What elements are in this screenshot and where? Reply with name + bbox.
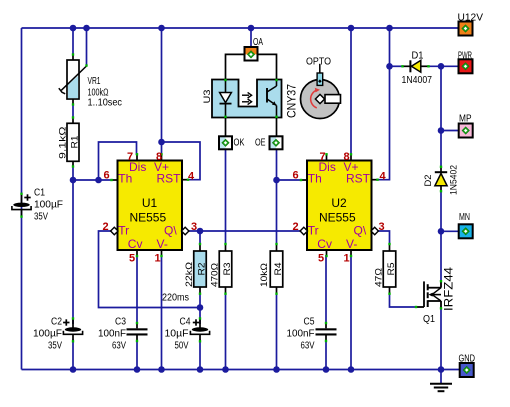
diode D1 bbox=[401, 60, 429, 72]
label C4 + bbox=[193, 319, 199, 325]
svg-text:V-: V- bbox=[346, 237, 357, 251]
svg-text:3: 3 bbox=[191, 221, 197, 233]
svg-text:10kΩ: 10kΩ bbox=[259, 263, 270, 287]
wire opto emitter to OE bbox=[276, 118, 278, 137]
wire PWR node down to D2 bbox=[440, 66, 442, 167]
wire U1 Tr to R2/C4 node bbox=[99, 231, 201, 308]
transistor Q1 IRFZ44 bbox=[415, 280, 442, 310]
wire VR1 wiper feed bbox=[86, 28, 88, 66]
junction (200,369.5) bbox=[197, 366, 204, 373]
svg-text:Tr: Tr bbox=[308, 224, 319, 238]
wire D1 to PWR bbox=[429, 65, 459, 67]
svg-text:NE555: NE555 bbox=[319, 211, 356, 225]
svg-text:Q1: Q1 bbox=[423, 314, 435, 325]
junction (441,130.5) bbox=[438, 127, 445, 134]
svg-text:100µF: 100µF bbox=[33, 329, 62, 340]
junction (73,180) bbox=[70, 177, 77, 184]
connector OA bbox=[245, 47, 258, 61]
wire U2 RST to rail bbox=[377, 28, 390, 180]
junction (73,28) bbox=[70, 25, 77, 32]
timer U1 NE555 bbox=[102, 151, 197, 265]
svg-text:OE: OE bbox=[255, 137, 266, 148]
svg-text:22kΩ: 22kΩ bbox=[184, 262, 195, 287]
svg-text:R4: R4 bbox=[273, 263, 284, 276]
label VR1 bbox=[88, 76, 123, 109]
wire node to U2 Th bbox=[277, 179, 303, 181]
svg-text:Tr: Tr bbox=[118, 224, 129, 238]
svg-text:U2: U2 bbox=[331, 196, 347, 210]
wire U2 V+ from rail bbox=[350, 28, 352, 155]
svg-text:10µF: 10µF bbox=[165, 329, 189, 340]
svg-text:63V: 63V bbox=[301, 341, 315, 352]
junction (389.5,66.3) bbox=[386, 63, 393, 70]
svg-text:Th: Th bbox=[118, 171, 132, 185]
svg-text:1N5402: 1N5402 bbox=[449, 165, 460, 195]
resistor R1 bbox=[67, 116, 79, 167]
junction (441,66.3) bbox=[438, 63, 445, 70]
svg-text:35V: 35V bbox=[48, 341, 62, 352]
svg-text:5: 5 bbox=[129, 253, 135, 265]
wire left supply rail bbox=[21, 28, 23, 370]
junction (351,369.5) bbox=[348, 366, 355, 373]
resistor R3 bbox=[219, 243, 232, 295]
wire node A down to C2 bbox=[72, 180, 74, 324]
connector U12V bbox=[459, 22, 473, 36]
svg-text:35V: 35V bbox=[34, 212, 48, 223]
potentiometer VR1 bbox=[59, 53, 88, 105]
svg-text:R5: R5 bbox=[386, 263, 397, 276]
label C2 + bbox=[63, 319, 69, 325]
wire R2 bottom to node bbox=[199, 293, 201, 308]
wire +12V top rail bbox=[22, 27, 459, 29]
junction (351,28) bbox=[348, 25, 355, 32]
svg-text:Th: Th bbox=[308, 171, 322, 185]
svg-text:MP: MP bbox=[459, 114, 472, 125]
wire OA connector drop bbox=[250, 28, 252, 48]
wire ground symbol stub bbox=[440, 370, 442, 384]
svg-text:C2: C2 bbox=[51, 317, 62, 328]
wire OE to R4 / U2 Th node bbox=[276, 149, 278, 245]
capacitor C1 bbox=[12, 193, 31, 218]
junction (200,231) bbox=[197, 228, 204, 235]
connector OK bbox=[219, 136, 232, 149]
svg-text:D1: D1 bbox=[412, 51, 424, 62]
svg-text:7: 7 bbox=[127, 151, 133, 163]
svg-text:V-: V- bbox=[157, 237, 168, 251]
connector PWR bbox=[459, 59, 473, 73]
junction (137,369.5) bbox=[134, 366, 141, 373]
wire VR1 top feed bbox=[72, 28, 74, 55]
connector OE bbox=[270, 136, 283, 149]
junction (441,369.5) bbox=[438, 366, 445, 373]
svg-text:C5: C5 bbox=[304, 317, 315, 328]
junction (161.5,369.5) bbox=[158, 366, 165, 373]
svg-text:8: 8 bbox=[156, 151, 162, 163]
svg-text:VR1: VR1 bbox=[88, 76, 101, 87]
wire OK to R3 bbox=[225, 149, 227, 245]
resistor R5 bbox=[383, 243, 396, 295]
connector MN bbox=[459, 224, 473, 238]
svg-text:8: 8 bbox=[343, 151, 349, 163]
svg-text:C4: C4 bbox=[180, 317, 191, 328]
junction (86.5,28) bbox=[83, 25, 90, 32]
capacitor C3 bbox=[127, 322, 148, 342]
wire ground bottom rail bbox=[22, 369, 461, 371]
svg-text:63V: 63V bbox=[112, 341, 126, 352]
wire C3 to ground rail bbox=[136, 341, 138, 370]
connector GND bbox=[460, 363, 474, 377]
junction (441,231.3) bbox=[438, 228, 445, 235]
wire C5 to ground rail bbox=[325, 341, 327, 370]
svg-text:100µF: 100µF bbox=[34, 200, 63, 211]
svg-text:470Ω: 470Ω bbox=[210, 263, 221, 287]
wire U1 Q out to U2 Tr bbox=[188, 230, 304, 232]
sensor disc OPTO bbox=[301, 64, 341, 119]
wire OA to opto LED anode bbox=[226, 54, 245, 79]
wire U1 Cv to C3 bbox=[136, 255, 138, 324]
label C4 values bbox=[165, 317, 191, 352]
wire D2 to MN node bbox=[440, 191, 442, 231]
svg-text:1N4007: 1N4007 bbox=[402, 75, 433, 86]
junction (276.5,180) bbox=[273, 177, 280, 184]
junction (161.5,28) bbox=[158, 25, 165, 32]
svg-text:R2: R2 bbox=[197, 263, 208, 276]
wire U1 RST to V+ bbox=[162, 142, 201, 180]
svg-text:2: 2 bbox=[102, 221, 108, 233]
svg-text:U1: U1 bbox=[142, 196, 158, 210]
connector MP bbox=[459, 124, 473, 138]
svg-text:RST: RST bbox=[157, 171, 182, 185]
wire VR1 to R1 bbox=[72, 104, 74, 119]
svg-text:1: 1 bbox=[343, 253, 349, 265]
optocoupler U3 CNY37 bbox=[212, 79, 282, 118]
svg-text:6: 6 bbox=[103, 170, 109, 182]
svg-text:4: 4 bbox=[379, 171, 386, 183]
junction (200,307.5) bbox=[197, 304, 204, 311]
svg-text:MN: MN bbox=[459, 212, 470, 223]
svg-text:Cv: Cv bbox=[317, 237, 332, 251]
label C3 values bbox=[98, 317, 126, 352]
svg-text:220ms: 220ms bbox=[162, 293, 189, 304]
capacitor C5 bbox=[316, 322, 337, 342]
svg-text:GND: GND bbox=[459, 354, 476, 365]
wire OA to opto collector bbox=[258, 54, 277, 79]
wire U1 V+ from rail bbox=[161, 28, 163, 155]
svg-text:OK: OK bbox=[234, 137, 245, 148]
svg-text:47Ω: 47Ω bbox=[374, 268, 385, 287]
wire C2 to ground rail bbox=[72, 340, 74, 370]
svg-text:CNY37: CNY37 bbox=[287, 84, 299, 118]
timer U2 NE555 bbox=[292, 151, 386, 265]
svg-text:IRFZ44: IRFZ44 bbox=[444, 266, 456, 311]
wire node A to U1 Th bbox=[73, 179, 112, 181]
wire MP branch bbox=[441, 130, 459, 132]
resistor R4 bbox=[270, 243, 283, 295]
svg-text:R1: R1 bbox=[70, 136, 81, 149]
capacitor C2 bbox=[63, 317, 82, 342]
svg-text:100nF: 100nF bbox=[98, 329, 126, 340]
svg-text:NE555: NE555 bbox=[129, 211, 166, 225]
svg-text:6: 6 bbox=[292, 170, 298, 182]
svg-text:Q\: Q\ bbox=[164, 224, 177, 238]
junction (73,369.5) bbox=[70, 366, 77, 373]
svg-text:5: 5 bbox=[318, 253, 324, 265]
wire U1 V- to ground rail bbox=[161, 255, 163, 370]
wire Q1 source to ground rail bbox=[440, 308, 442, 370]
wire U2 Q to R5 bbox=[377, 231, 390, 245]
junction (251,28) bbox=[248, 25, 255, 32]
wire MN node to Q1 drain bbox=[440, 231, 442, 282]
wire opto LED cathode to OK bbox=[225, 118, 227, 137]
svg-text:OA: OA bbox=[253, 37, 263, 48]
capacitor C4 bbox=[190, 317, 209, 342]
svg-text:D2: D2 bbox=[423, 175, 434, 187]
wire U2 Cv to C5 bbox=[325, 255, 327, 324]
svg-text:R3: R3 bbox=[222, 263, 233, 276]
junction (389.5,28) bbox=[386, 25, 393, 32]
svg-text:3: 3 bbox=[378, 221, 384, 233]
svg-text:OPTO: OPTO bbox=[306, 57, 331, 68]
junction (225.5,369.5) bbox=[222, 366, 229, 373]
wire node to C4 bbox=[199, 308, 201, 325]
label C1 + bbox=[24, 194, 30, 200]
wire R4 to ground rail bbox=[276, 293, 278, 370]
wire rail to D1 bbox=[390, 65, 403, 67]
label C5 values bbox=[287, 317, 315, 352]
diode D2 bbox=[435, 166, 447, 193]
svg-text:50V: 50V bbox=[175, 341, 189, 352]
wire R1 to node A bbox=[72, 166, 74, 181]
svg-text:100nF: 100nF bbox=[287, 329, 315, 340]
wire R2 top lead bbox=[199, 231, 201, 245]
label C2 values bbox=[33, 317, 62, 352]
svg-text:C1: C1 bbox=[34, 188, 45, 199]
svg-text:RST: RST bbox=[346, 171, 371, 185]
label C1 values bbox=[34, 188, 63, 223]
junction (161.5,142) bbox=[158, 139, 165, 146]
junction (276.5,369.5) bbox=[273, 366, 280, 373]
svg-text:2: 2 bbox=[292, 221, 298, 233]
ground symbol bbox=[430, 384, 452, 392]
svg-text:4: 4 bbox=[188, 171, 195, 183]
resistor R2 bbox=[194, 243, 207, 295]
svg-text:1..10sec: 1..10sec bbox=[88, 98, 123, 109]
wire MN branch bbox=[441, 230, 459, 232]
svg-text:1: 1 bbox=[154, 253, 160, 265]
svg-text:Cv: Cv bbox=[128, 237, 143, 251]
wire R5 to Q1 gate bbox=[390, 293, 417, 307]
svg-text:C3: C3 bbox=[115, 317, 126, 328]
junction (326,369.5) bbox=[323, 366, 330, 373]
wire U2 V- to ground rail bbox=[350, 255, 352, 370]
svg-text:U3: U3 bbox=[202, 90, 213, 104]
svg-text:7: 7 bbox=[319, 151, 325, 163]
wire U1 Dis loop bbox=[99, 142, 137, 180]
junction (98.5,180) bbox=[95, 177, 102, 184]
wire R3 to ground rail bbox=[225, 293, 227, 370]
svg-text:U12V: U12V bbox=[458, 13, 484, 24]
svg-text:9.1kΩ: 9.1kΩ bbox=[58, 127, 69, 160]
wire C4 to ground rail bbox=[199, 340, 201, 370]
svg-text:PWR: PWR bbox=[458, 51, 472, 62]
svg-text:Q\: Q\ bbox=[354, 224, 367, 238]
